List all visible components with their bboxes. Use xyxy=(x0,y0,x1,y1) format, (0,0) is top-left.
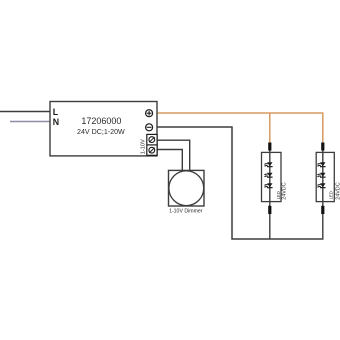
svg-text:LED: LED xyxy=(329,191,334,199)
svg-text:N: N xyxy=(53,117,59,127)
svg-text:LED: LED xyxy=(276,191,281,199)
svg-text:24V DC;1-20W: 24V DC;1-20W xyxy=(77,128,125,136)
svg-text:24VDC: 24VDC xyxy=(281,182,287,199)
svg-text:1-10V: 1-10V xyxy=(141,139,147,154)
svg-text:17206000: 17206000 xyxy=(81,116,121,126)
svg-text:L: L xyxy=(53,107,59,117)
svg-text:1-10V Dimmer: 1-10V Dimmer xyxy=(169,209,203,215)
svg-text:24VDC: 24VDC xyxy=(335,182,340,199)
